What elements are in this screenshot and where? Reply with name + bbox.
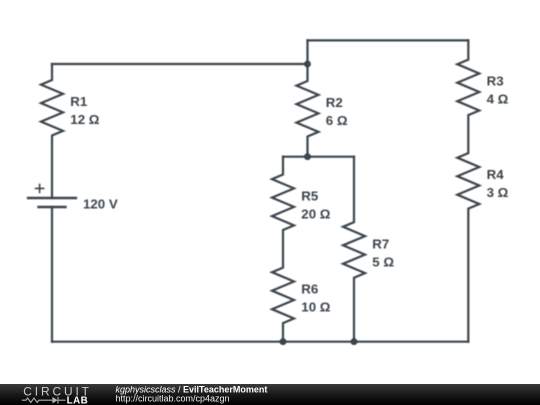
svg-text:LAB: LAB [67, 395, 89, 405]
svg-text:R2: R2 [326, 95, 343, 110]
svg-text:12 Ω: 12 Ω [70, 112, 99, 127]
svg-text:R5: R5 [301, 189, 319, 204]
svg-text:R4: R4 [487, 167, 505, 182]
svg-text:120 V: 120 V [83, 196, 118, 211]
svg-text:R1: R1 [70, 94, 88, 109]
svg-text:http://circuitlab.com/cp4azgn: http://circuitlab.com/cp4azgn [116, 394, 230, 404]
svg-text:20 Ω: 20 Ω [301, 207, 330, 222]
svg-text:R3: R3 [487, 74, 504, 89]
svg-text:6 Ω: 6 Ω [326, 113, 348, 128]
svg-text:3 Ω: 3 Ω [487, 185, 509, 200]
svg-text:10 Ω: 10 Ω [301, 300, 330, 315]
svg-text:R6: R6 [301, 282, 318, 297]
svg-text:5 Ω: 5 Ω [372, 254, 394, 269]
svg-text:4 Ω: 4 Ω [487, 92, 509, 107]
svg-text:R7: R7 [372, 236, 389, 251]
